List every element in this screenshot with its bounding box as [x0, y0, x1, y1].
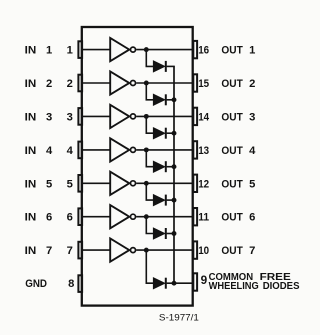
wire: common rail to pin 9	[174, 282, 193, 284]
wire: node OUT4 to diode D4 anode	[146, 150, 154, 167]
common free-wheeling-diode rail (node COM)	[173, 66, 175, 283]
svg-text:16: 16	[198, 45, 209, 57]
wire: node OUT3 to diode D3 anode	[146, 116, 154, 133]
wire: diode D5 cathode to common rail	[167, 199, 175, 201]
wire: diode D7 cathode to common rail	[167, 282, 175, 284]
svg-text:IN: IN	[25, 212, 37, 224]
wire: node OUT5 to diode D5 anode	[146, 183, 154, 200]
diode D4	[154, 161, 166, 172]
svg-text:3: 3	[67, 111, 73, 123]
pin 10 (OUT 7)	[193, 241, 197, 258]
svg-text:6: 6	[46, 212, 52, 224]
svg-text:3: 3	[46, 111, 52, 123]
IC body outline	[82, 27, 193, 306]
junction dot: D2 on common rail	[172, 97, 177, 102]
diode D2	[154, 94, 166, 105]
label IN 3	[25, 111, 53, 123]
label OUT 2	[221, 78, 255, 90]
svg-text:OUT: OUT	[221, 212, 243, 224]
wire: inverter A4 output to pin 13	[136, 149, 193, 151]
svg-text:10: 10	[198, 245, 209, 257]
diode D3	[154, 128, 166, 139]
label OUT 7	[221, 245, 255, 257]
svg-text:1: 1	[46, 45, 52, 57]
wire: pin 4 to inverter A4 input	[83, 149, 110, 151]
pin 5 (IN 5)	[78, 175, 82, 192]
wire: inverter A5 output to pin 12	[136, 182, 193, 184]
junction dot: D7 on common rail	[172, 281, 177, 286]
junction dot node OUT3	[144, 114, 149, 119]
pin 6 (IN 6)	[78, 208, 82, 225]
svg-text:IN: IN	[25, 45, 37, 57]
inverter A1	[110, 38, 135, 61]
pin 11 (OUT 6)	[193, 208, 197, 225]
label IN 4	[25, 145, 53, 157]
wire: pin 7 to inverter A7 input	[83, 249, 110, 251]
diode D5	[154, 195, 166, 206]
label COMMON FREE WHEELING DIODES	[209, 272, 300, 292]
pin 14 (OUT 3)	[193, 108, 197, 125]
svg-text:DIODES: DIODES	[263, 281, 300, 292]
junction dot node OUT4	[144, 147, 149, 152]
junction dot node OUT5	[144, 181, 149, 186]
svg-text:3: 3	[249, 111, 255, 123]
junction dot node OUT1	[144, 47, 149, 52]
wire: diode D6 cathode to common rail	[167, 233, 175, 235]
svg-text:IN: IN	[25, 145, 37, 157]
svg-text:6: 6	[67, 212, 73, 224]
wire: diode D3 cathode to common rail	[167, 132, 175, 134]
svg-text:5: 5	[46, 178, 52, 190]
svg-text:IN: IN	[25, 78, 37, 90]
label OUT 4	[221, 145, 256, 157]
pin 13 (OUT 4)	[193, 141, 197, 158]
wire: node OUT1 to diode D1 anode	[146, 50, 154, 67]
junction dot: D4 on common rail	[172, 164, 177, 169]
svg-text:7: 7	[67, 245, 73, 257]
pin 3 (IN 3)	[78, 108, 82, 125]
wire: node OUT7 to diode D7 anode	[146, 250, 154, 283]
svg-text:7: 7	[46, 245, 52, 257]
svg-text:2: 2	[249, 78, 255, 90]
pin 7 (IN 7)	[78, 242, 82, 259]
diode D1	[154, 61, 166, 72]
wire: diode D4 cathode to common rail	[167, 166, 175, 168]
wire: pin 6 to inverter A6 input	[83, 216, 110, 218]
wire: pin 1 to inverter A1 input	[83, 49, 110, 51]
label OUT 6	[221, 212, 255, 224]
label IN 6	[25, 212, 53, 224]
wire: pin 5 to inverter A5 input	[83, 182, 110, 184]
pin 12 (OUT 5)	[193, 175, 197, 192]
svg-text:1: 1	[249, 45, 255, 57]
svg-text:2: 2	[46, 78, 52, 90]
svg-text:4: 4	[46, 145, 53, 157]
wire: inverter A3 output to pin 14	[136, 115, 193, 117]
inverter A3	[110, 105, 135, 128]
junction dot: D6 on common rail	[172, 231, 177, 236]
svg-text:9: 9	[201, 273, 208, 287]
junction dot: D3 on common rail	[172, 131, 177, 136]
wire: pin 3 to inverter A3 input	[83, 115, 110, 117]
junction dot node OUT2	[144, 81, 149, 86]
svg-text:WHEELING: WHEELING	[209, 281, 259, 292]
svg-text:7: 7	[249, 245, 255, 257]
pin 16 (OUT 1)	[193, 41, 197, 58]
wire: inverter A1 output to pin 16	[136, 49, 193, 51]
wire: inverter A2 output to pin 15	[136, 82, 193, 84]
svg-text:4: 4	[67, 145, 74, 157]
svg-text:GND: GND	[25, 278, 47, 290]
pin 8 (GND)	[78, 275, 82, 292]
pin 4 (IN 4)	[78, 142, 82, 159]
inverter A2	[110, 71, 135, 94]
pin 9 (COMMON FREE WHEELING DIODES)	[193, 273, 197, 290]
svg-text:OUT: OUT	[221, 111, 243, 123]
inverter A5	[110, 172, 135, 195]
svg-text:2: 2	[67, 78, 73, 90]
svg-text:13: 13	[198, 145, 209, 157]
svg-text:OUT: OUT	[221, 78, 243, 90]
wire: pin 2 to inverter A2 input	[83, 82, 110, 84]
svg-text:11: 11	[198, 212, 209, 224]
pin 2 (IN 2)	[78, 75, 82, 92]
svg-text:OUT: OUT	[221, 178, 243, 190]
wire: node OUT2 to diode D2 anode	[146, 83, 154, 100]
junction dot: D5 on common rail	[172, 198, 177, 203]
diode D7	[154, 278, 166, 289]
inverter A4	[110, 138, 135, 161]
pin 1 (IN 1)	[78, 41, 82, 58]
svg-text:6: 6	[249, 212, 255, 224]
svg-text:IN: IN	[25, 178, 37, 190]
svg-text:8: 8	[68, 278, 74, 290]
pin 15 (OUT 2)	[193, 74, 197, 91]
svg-text:5: 5	[249, 178, 255, 190]
svg-text:OUT: OUT	[221, 45, 243, 57]
label IN 2	[25, 78, 53, 90]
svg-text:1: 1	[67, 45, 73, 57]
svg-text:12: 12	[198, 178, 209, 190]
svg-text:15: 15	[198, 78, 209, 90]
label OUT 1	[221, 45, 255, 57]
junction dot node OUT7	[144, 248, 149, 253]
label OUT 5	[221, 178, 255, 190]
wire: diode D2 cathode to common rail	[167, 99, 175, 101]
svg-text:4: 4	[249, 145, 256, 157]
junction dot node OUT6	[144, 214, 149, 219]
inverter A6	[110, 205, 135, 228]
inverter A7	[110, 239, 135, 262]
label IN 7	[25, 245, 53, 257]
label IN 5	[25, 178, 53, 190]
svg-text:OUT: OUT	[221, 245, 243, 257]
svg-text:14: 14	[198, 111, 210, 123]
wire: node OUT6 to diode D6 anode	[146, 217, 154, 234]
svg-text:IN: IN	[25, 111, 37, 123]
wire: diode D1 cathode to common rail	[167, 65, 175, 67]
label IN 1	[25, 45, 53, 57]
diode D6	[154, 228, 166, 239]
svg-text:5: 5	[67, 178, 73, 190]
svg-text:OUT: OUT	[221, 145, 243, 157]
svg-text:S-1977/1: S-1977/1	[159, 313, 199, 323]
wire: inverter A7 output to pin 10	[136, 249, 193, 251]
wire: inverter A6 output to pin 11	[136, 216, 193, 218]
svg-text:IN: IN	[25, 245, 37, 257]
label OUT 3	[221, 111, 255, 123]
